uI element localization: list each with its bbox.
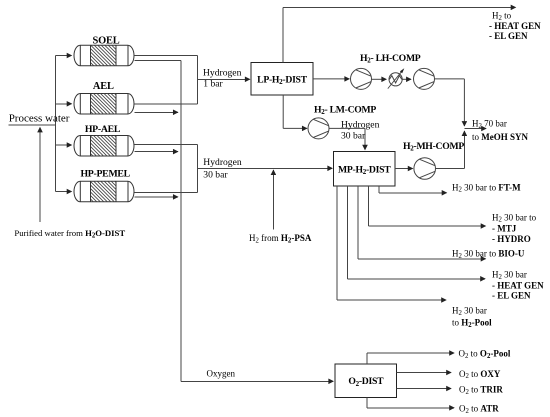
svg-text:HP-AEL: HP-AEL xyxy=(85,124,121,135)
svg-text:to MeOH SYN: to MeOH SYN xyxy=(472,132,529,142)
svg-text:MP-H2-DIST: MP-H2-DIST xyxy=(338,165,391,177)
svg-text:SOEL: SOEL xyxy=(93,35,120,46)
svg-text:H2- LM-COMP: H2- LM-COMP xyxy=(314,105,376,117)
svg-text:30 bar: 30 bar xyxy=(341,130,366,141)
svg-text:Hydrogen: Hydrogen xyxy=(203,68,242,79)
svg-text:AEL: AEL xyxy=(93,81,114,92)
svg-text:Hydrogen: Hydrogen xyxy=(203,157,242,168)
svg-text:- EL GEN: - EL GEN xyxy=(492,291,531,301)
svg-text:O2-DIST: O2-DIST xyxy=(348,376,384,388)
svg-text:Hydrogen: Hydrogen xyxy=(341,119,380,130)
svg-text:O2 to OXY: O2 to OXY xyxy=(459,369,501,380)
svg-text:- MTJ: - MTJ xyxy=(492,223,517,233)
svg-text:HP-PEMEL: HP-PEMEL xyxy=(80,168,130,179)
svg-text:O2 to O2-Pool: O2 to O2-Pool xyxy=(459,348,511,359)
svg-text:H2 30 bar: H2 30 bar xyxy=(492,270,527,281)
svg-text:Process water: Process water xyxy=(9,112,70,124)
svg-text:to H2-Pool: to H2-Pool xyxy=(452,318,492,329)
svg-text:- EL GEN: - EL GEN xyxy=(489,31,528,41)
svg-text:- HYDRO: - HYDRO xyxy=(492,234,531,244)
svg-text:- HEAT GEN: - HEAT GEN xyxy=(489,21,541,31)
svg-text:Purified water from H2O-DIST: Purified water from H2O-DIST xyxy=(14,228,125,239)
svg-text:H2 70 bar: H2 70 bar xyxy=(472,119,507,130)
svg-text:O2 to ATR: O2 to ATR xyxy=(459,404,499,415)
svg-text:- HEAT GEN: - HEAT GEN xyxy=(492,281,544,291)
svg-text:30 bar: 30 bar xyxy=(203,169,228,180)
svg-text:H2 30 bar to FT-M: H2 30 bar to FT-M xyxy=(452,182,521,193)
svg-text:H2 from H2-PSA: H2 from H2-PSA xyxy=(249,233,312,244)
svg-text:H2 30 bar: H2 30 bar xyxy=(452,306,487,317)
svg-text:Oxygen: Oxygen xyxy=(207,369,236,379)
svg-text:H2-MH-COMP: H2-MH-COMP xyxy=(403,141,464,153)
svg-text:O2 to TRIR: O2 to TRIR xyxy=(459,384,503,395)
svg-text:H2- LH-COMP: H2- LH-COMP xyxy=(360,53,421,65)
svg-text:H2 30 bar to: H2 30 bar to xyxy=(492,212,537,223)
svg-text:H2 30 bar to BIO-U: H2 30 bar to BIO-U xyxy=(452,249,525,260)
svg-text:LP-H2-DIST: LP-H2-DIST xyxy=(257,75,308,87)
svg-text:1 bar: 1 bar xyxy=(203,78,223,89)
